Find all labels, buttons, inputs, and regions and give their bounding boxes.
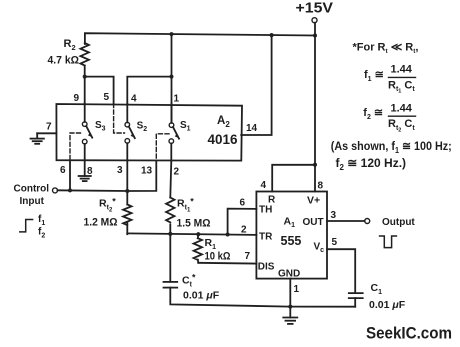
label Ct [182, 273, 196, 289]
node control at pin 6 [68, 188, 72, 192]
svg-text:1.2 MΩ: 1.2 MΩ [84, 217, 118, 229]
value 1.5 MOhm [177, 218, 211, 230]
label GND [278, 269, 300, 280]
svg-text:7: 7 [46, 122, 52, 133]
node control at pin 3 [125, 189, 129, 193]
pin 1 [174, 94, 180, 105]
pin 5 [104, 92, 110, 103]
control input terminal [53, 188, 58, 193]
dashed control S1 pin 13 [156, 134, 169, 161]
svg-text:R1: R1 [205, 237, 217, 251]
wire S3 output to pin 8 [84, 144, 86, 161]
label 555 [281, 234, 302, 248]
formula f2 [363, 102, 416, 133]
ground at pin 7 [31, 133, 44, 144]
switch S1 [169, 123, 180, 144]
svg-text:10 kΩ: 10 kΩ [205, 251, 231, 263]
label +15V [296, 0, 334, 16]
wire +15V rail down to V+ [314, 23, 316, 192]
note As shown f1 [331, 139, 452, 155]
resistor Rt2 1.2M [123, 205, 131, 235]
label R1 [205, 237, 217, 251]
node timing bus at R1 [196, 232, 200, 236]
ground at pin 8 [79, 161, 91, 181]
svg-text:*For Rt ≪ Rt,: *For Rt ≪ Rt, [353, 42, 419, 56]
svg-text:V+: V+ [307, 195, 320, 207]
pin 8 555 [318, 181, 324, 192]
node top bus at pin1 [170, 32, 174, 36]
svg-text:OUT: OUT [303, 217, 324, 228]
svg-text:3: 3 [117, 165, 123, 176]
svg-text:Control: Control [14, 184, 50, 195]
node R2 bottom junction [83, 75, 87, 79]
ground at 555 pin 1 [283, 307, 297, 324]
svg-text:DIS: DIS [258, 261, 275, 272]
svg-text:TH: TH [259, 205, 272, 216]
svg-text:+15V: +15V [296, 0, 334, 16]
pin 8 [87, 166, 93, 177]
svg-text:R2: R2 [64, 38, 76, 52]
output terminal [365, 219, 370, 224]
svg-text:0.01 μF: 0.01 μF [183, 290, 220, 302]
svg-text:9: 9 [74, 93, 80, 104]
svg-text:f1 ≅: f1 ≅ [364, 69, 384, 83]
value 10 kOhm [205, 251, 231, 263]
value C1 0.01uF [369, 299, 406, 311]
pin 5 555 [332, 237, 338, 248]
svg-text:SeekIC.com: SeekIC.com [366, 325, 452, 343]
svg-text:1.5 MΩ: 1.5 MΩ [177, 218, 211, 230]
pin 4 555 [261, 180, 267, 191]
svg-text:4: 4 [131, 94, 137, 105]
formula f1 [364, 64, 416, 95]
dashed control S3 pin 6 [70, 133, 81, 161]
label S3 [95, 120, 106, 133]
svg-text:4: 4 [261, 180, 267, 191]
label R reset [268, 195, 276, 206]
control step waveform symbol [20, 220, 33, 232]
capacitor C1 0.01uF [349, 293, 363, 298]
wire pin 6 below box [69, 161, 71, 191]
svg-text:Rt1*: Rt1* [177, 197, 194, 214]
svg-text:1: 1 [294, 284, 300, 295]
node pin1/pin4 tie [170, 75, 174, 79]
wire pin 2 down to Rt1 [170, 161, 171, 198]
svg-text:3: 3 [331, 210, 337, 221]
svg-text:S2: S2 [137, 121, 148, 134]
switch S3 [82, 122, 93, 144]
label DIS [258, 261, 275, 272]
wire pin 1 GND [289, 279, 291, 307]
svg-text:13: 13 [141, 166, 153, 177]
node ground bus [288, 305, 292, 309]
wire pin 4 to pin 1 tie [127, 77, 171, 104]
svg-text:Output: Output [382, 217, 415, 228]
svg-text:GND: GND [278, 269, 300, 280]
wire OUT pin 3 [327, 220, 365, 222]
wire pin 4 reset to +15V [272, 165, 315, 192]
value 1.2 MOhm [84, 217, 118, 229]
svg-text:8: 8 [87, 166, 93, 177]
label Control [14, 184, 50, 195]
svg-text:5: 5 [104, 92, 110, 103]
svg-text:1.44: 1.44 [391, 102, 413, 114]
wire R2 junction to pin 5 [85, 77, 114, 104]
pin 7 [46, 122, 52, 133]
svg-text:6: 6 [60, 165, 66, 176]
wire S1 output to pin 2 [170, 143, 172, 160]
svg-text:2: 2 [241, 225, 247, 236]
svg-text:Rt2*: Rt2* [99, 197, 116, 214]
wire top bus +15V to R2 [85, 33, 315, 44]
IC A1 555 box [256, 192, 327, 279]
wire timing bus to TR [127, 233, 256, 235]
node top bus at pin14 riser [270, 33, 274, 37]
wire pin 14 to top bus [241, 35, 271, 135]
wire pin 7 to ground [37, 132, 56, 134]
wire R1 to DIS pin 7 [198, 262, 256, 265]
pin 6 [60, 165, 66, 176]
wire pin 1 into S1 [171, 104, 173, 123]
wire TH branch pin 6 [228, 209, 257, 235]
svg-text:TR: TR [259, 232, 273, 243]
capacitor Ct 0.01uF [164, 282, 178, 288]
svg-text:1: 1 [174, 94, 180, 105]
label 4016 [208, 132, 238, 147]
value Ct 0.01uF [183, 290, 220, 302]
label TH [259, 205, 272, 216]
svg-text:8: 8 [318, 181, 324, 192]
node timing bus at TH branch [226, 233, 230, 237]
wire Ct to ground bus [170, 288, 355, 307]
IC A2 4016 box [56, 104, 242, 161]
value 4.7 kOhm [48, 55, 80, 67]
wire C1 to ground bus [354, 298, 356, 307]
label Input [20, 196, 45, 207]
resistor Rt1 1.5M [166, 198, 174, 235]
pin 3 555 [331, 210, 337, 221]
wire control input line [58, 189, 128, 192]
svg-text:2: 2 [174, 167, 180, 178]
svg-text:f1: f1 [38, 214, 45, 227]
label V+ [307, 195, 320, 207]
switch S2 [125, 122, 136, 143]
svg-text:f2 ≅: f2 ≅ [363, 107, 383, 121]
svg-text:Rt1 Ct: Rt1 Ct [388, 79, 415, 94]
label S1 [180, 120, 191, 133]
pin 2 [174, 167, 180, 178]
svg-text:Vc: Vc [314, 242, 325, 255]
node +15V at pin 4 [313, 163, 317, 167]
wire pin 9 into S3 [84, 104, 86, 122]
svg-text:S3: S3 [95, 120, 106, 133]
svg-text:6: 6 [240, 198, 246, 209]
pin 3 [117, 165, 123, 176]
wire pin 3 down to Rt2 [126, 161, 128, 205]
dashed control S2 pin 5 [114, 104, 125, 134]
svg-text:Ct*: Ct* [182, 273, 196, 289]
wire pin 4 into S2 [126, 104, 128, 123]
svg-text:7: 7 [245, 251, 251, 262]
label TR [259, 232, 273, 243]
wire down to Ct [169, 234, 171, 282]
label Vc [314, 242, 325, 255]
label R2 [64, 38, 76, 52]
resistor R1 10k [194, 234, 202, 263]
pin 9 [74, 93, 80, 104]
pin 4 [131, 94, 137, 105]
label f2 [38, 227, 45, 240]
resistor R2 [80, 43, 88, 104]
watermark SeekIC.com [366, 325, 452, 343]
pin 14 [246, 123, 258, 134]
svg-text:0.01 μF: 0.01 μF [369, 299, 406, 311]
node top bus at +15V line [313, 34, 317, 38]
svg-text:Rt2 Ct: Rt2 Ct [388, 118, 415, 133]
svg-text:5: 5 [332, 237, 338, 248]
pin 13 [141, 166, 153, 177]
pin 2 555 [241, 225, 247, 236]
svg-text:S1: S1 [180, 120, 191, 133]
label f1 [38, 214, 45, 227]
wire pin 1 vertical from top bus [171, 34, 173, 123]
label Rt1 [177, 197, 194, 214]
output pulse waveform symbol [380, 236, 397, 248]
label Output [382, 217, 415, 228]
svg-text:555: 555 [281, 234, 302, 248]
label A2 [217, 115, 230, 129]
label OUT [303, 217, 324, 228]
svg-text:A2: A2 [217, 115, 230, 129]
label S2 [137, 121, 148, 134]
wire pin 13 below box [127, 161, 156, 191]
wire S2 output to pin 3 [126, 143, 128, 161]
note f2 120Hz [336, 156, 407, 172]
svg-text:4016: 4016 [208, 132, 238, 147]
note For Rt << Rt [353, 42, 419, 56]
svg-text:4.7 kΩ: 4.7 kΩ [48, 55, 80, 67]
pin 1 555 [294, 284, 300, 295]
svg-text:Input: Input [20, 196, 45, 207]
svg-text:f2 ≅ 120 Hz.): f2 ≅ 120 Hz.) [336, 156, 407, 172]
svg-text:A1: A1 [284, 216, 296, 230]
svg-text:(As shown, f1 ≅ 100 Hz;: (As shown, f1 ≅ 100 Hz; [331, 139, 452, 155]
wire Vc pin 5 to C1 [327, 249, 355, 293]
svg-text:C1: C1 [371, 282, 383, 296]
+15V terminal [312, 18, 317, 23]
svg-text:14: 14 [246, 123, 258, 134]
node timing bus at Rt1 [168, 232, 172, 236]
svg-text:f2: f2 [38, 227, 45, 240]
pin 6 555 [240, 198, 246, 209]
label C1 [371, 282, 383, 296]
label A1 [284, 216, 296, 230]
pin 7 555 [245, 251, 251, 262]
svg-text:1.44: 1.44 [391, 64, 413, 76]
label Rt2 [99, 197, 116, 214]
